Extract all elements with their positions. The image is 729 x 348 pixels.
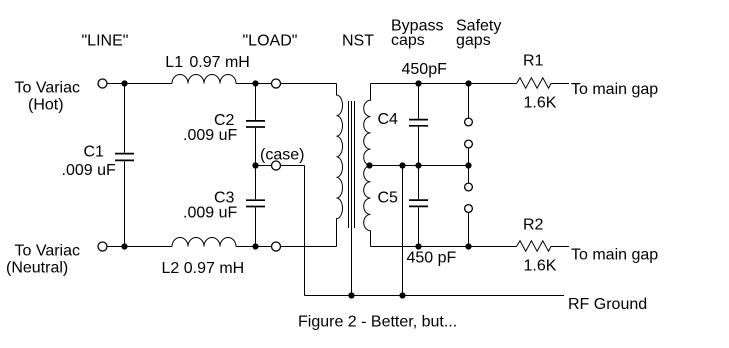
capacitor C4 [409,84,428,166]
svg-text:(Neutral): (Neutral) [6,260,68,277]
transformer primary winding [337,84,343,247]
wire load to primary bottom [280,246,336,248]
svg-text:.009 uF: .009 uF [183,205,237,222]
capacitor C2 label [183,112,237,144]
inductor L2 [172,238,236,247]
wire load to primary [281,83,337,85]
wire L2 to load terminal [236,246,272,248]
capacitor C2 [246,84,265,166]
svg-text:L10.97 mH: L10.97 mH [165,54,250,71]
wire neutral input [107,246,172,248]
capacitor C1 [115,84,134,247]
junction top/safety gap 1 [465,80,471,86]
svg-text:"LINE": "LINE" [82,33,129,50]
terminal: To Variac (Hot) [15,80,81,114]
capacitor C3 [246,166,265,247]
node (case) [252,161,304,170]
capacitor C3 label [183,190,237,222]
wire top to resistor R1 [469,83,517,85]
safety gaps heading [456,18,501,50]
svg-text:RF Ground: RF Ground [568,296,647,313]
svg-text:.009 uF: .009 uF [62,162,116,179]
resistor R2 [517,241,570,251]
terminal circle hot input [98,79,107,88]
svg-text:.009 uF: .009 uF [183,127,237,144]
resistor R1 [517,78,570,88]
capacitor C5 [409,166,428,247]
svg-text:1.6K: 1.6K [524,95,557,112]
svg-text:NST: NST [342,33,374,50]
junction load/C2 [252,80,258,86]
wire secondary top to safety gap [371,83,469,85]
svg-text:To main gap: To main gap [571,81,658,98]
junction tap/safety gaps [465,162,471,168]
svg-text:caps: caps [391,32,425,49]
capacitor C1 label [62,144,116,180]
wire case down to RF ground [304,166,306,296]
safety gap 2 [465,166,473,247]
junction tap/RF ground wire [399,162,405,168]
junction tap/C4C5 [415,162,421,168]
svg-text:(case): (case) [260,147,304,164]
wire center tap down to RF ground [402,166,404,296]
wire secondary bottom to resistor R2 [371,246,517,248]
junction RF/center tap [399,292,405,298]
svg-text:C5: C5 [378,190,399,207]
wire RF ground bus [305,295,565,297]
wire center tap row [370,165,469,167]
svg-text:Figure 2 - Better, but...: Figure 2 - Better, but... [298,314,457,331]
svg-text:To Variac: To Variac [15,243,81,260]
junction load/C3 [252,243,258,249]
junction top/C4 [415,80,421,86]
bypass caps heading [391,18,443,50]
terminal circle load hot [272,79,281,88]
junction bottom/safety gap 2 [465,243,471,249]
svg-text:C4: C4 [378,111,399,128]
svg-text:C1: C1 [84,144,105,161]
transformer secondary winding [364,84,371,247]
svg-text:L2 0.97 mH: L2 0.97 mH [162,260,245,277]
svg-text:R1: R1 [523,53,544,70]
terminal: To Variac (Neutral) [6,243,80,277]
svg-text:"LOAD": "LOAD" [243,33,298,50]
terminal circle neutral input [98,242,107,251]
wire L1 to load terminal [236,83,272,85]
junction hot/C1 [121,80,127,86]
terminal circle load neutral [272,242,281,251]
wire hot input [107,83,172,85]
svg-text:(Hot): (Hot) [28,97,64,114]
inductor L1 [172,75,236,84]
junction bottom/C5 [415,243,421,249]
transformer core [349,101,355,296]
secondary center tap junction [366,162,372,168]
svg-text:To Variac: To Variac [15,80,81,97]
svg-text:450pF: 450pF [402,61,448,78]
svg-text:gaps: gaps [456,32,491,49]
svg-text:To main gap: To main gap [571,247,658,264]
svg-text:1.6K: 1.6K [524,258,557,275]
safety gap 1 [465,84,473,166]
svg-text:450 pF: 450 pF [407,250,457,267]
junction RF/core [348,292,354,298]
junction neutral/C1 [121,243,127,249]
svg-text:R2: R2 [523,217,544,234]
